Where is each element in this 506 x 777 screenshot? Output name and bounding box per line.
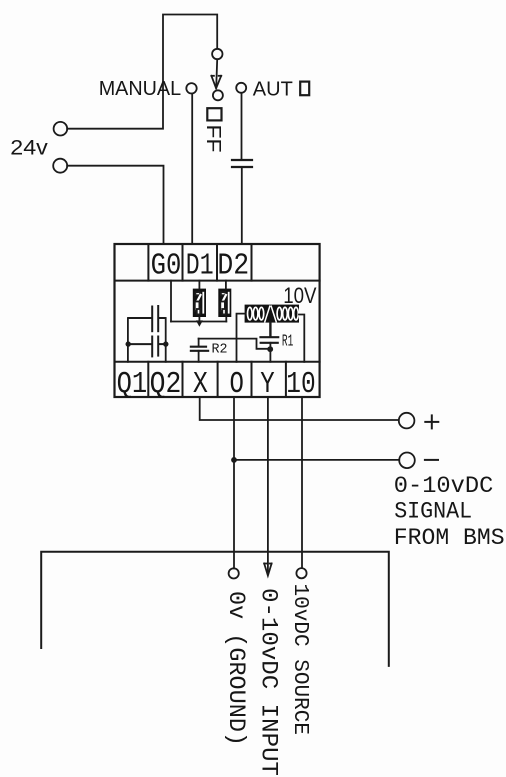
potentiometer RP1 xyxy=(245,305,299,323)
device terminal 10vDC source xyxy=(296,568,306,578)
label OFF (rotated, square O) xyxy=(207,108,221,120)
wire: potentiometer wiper to R1 xyxy=(269,323,271,337)
svg-text:SIGNAL: SIGNAL xyxy=(394,499,472,525)
junction dot Q1 branch xyxy=(126,341,131,346)
wire: capacitor C1 to terminal D2 xyxy=(241,168,243,244)
svg-text:10vDC SOURCE: 10vDC SOURCE xyxy=(288,584,311,736)
capacitor R2 xyxy=(191,339,208,362)
controller top terminal row xyxy=(115,244,320,281)
wire: Q1 terminal to contacts xyxy=(127,318,129,362)
junction dot on Y wire xyxy=(267,346,273,352)
switch SW1 common pole xyxy=(212,49,222,59)
svg-text:0v (GROUND): 0v (GROUND) xyxy=(223,591,249,746)
switch SW1 MANUAL position contact xyxy=(186,83,196,93)
junction dot Q2 branch xyxy=(163,341,168,346)
svg-text:0-10vDC: 0-10vDC xyxy=(394,473,494,499)
svg-text:MANUAL: MANUAL xyxy=(99,78,181,100)
wire: terminal Y to input arrow xyxy=(267,397,269,572)
wire: MANUAL contact to terminal D1 xyxy=(191,94,193,244)
optocoupler U2 (D1 input) xyxy=(193,289,206,317)
optocoupler U3 (D2 input) xyxy=(218,289,231,317)
label 0-10vDC SIGNAL FROM BMS xyxy=(394,473,505,551)
output terminal + xyxy=(399,413,415,429)
svg-text:R1: R1 xyxy=(282,333,293,352)
svg-text:24v: 24v xyxy=(10,136,48,159)
wire: potentiometer right end to terminal 10 xyxy=(299,315,304,362)
svg-text:0-10vDC INPUT: 0-10vDC INPUT xyxy=(256,588,282,776)
wire: G0 internal to common bus xyxy=(170,281,172,322)
relay contact K1b (lower, Q1-Q2) xyxy=(128,336,166,358)
svg-text:FROM BMS: FROM BMS xyxy=(394,525,505,551)
wire: Q2 terminal to contacts xyxy=(165,318,167,362)
controller bottom terminal row xyxy=(115,362,320,397)
svg-text:Q1: Q1 xyxy=(117,367,148,402)
svg-text:D2: D2 xyxy=(217,248,249,283)
junction dot on O wire xyxy=(231,457,237,463)
wire: common bus under optocouplers xyxy=(171,321,226,323)
output terminal - xyxy=(399,453,415,469)
wire: R2 top to Y junction xyxy=(199,339,268,349)
capacitor C1 xyxy=(232,160,252,167)
svg-text:AUT: AUT xyxy=(253,78,293,100)
wire: D1 terminal to optocoupler U2 xyxy=(198,281,200,289)
svg-text:O: O xyxy=(230,367,244,402)
device terminal 0v xyxy=(229,568,239,578)
svg-text:10V: 10V xyxy=(283,283,317,308)
svg-text:Q2: Q2 xyxy=(150,367,182,402)
controller U1 outer box xyxy=(115,244,320,397)
arrow into 0-10vDC input xyxy=(264,564,271,576)
wire: optocoupler U3 to bus xyxy=(225,317,227,322)
wire: terminal 10 down to source terminal xyxy=(301,397,303,568)
controlled device box xyxy=(41,552,389,666)
switch SW1 AUTO position contact xyxy=(236,83,246,93)
relay contact K1a (upper, Q1-Q2) xyxy=(128,305,166,332)
24v terminal T2 (bottom) xyxy=(53,159,67,173)
label + xyxy=(425,415,438,428)
wire: optocoupler U2 to bus xyxy=(198,317,200,322)
svg-text:FF: FF xyxy=(202,125,224,153)
wire: 24v T2 to terminal G0 xyxy=(67,166,163,244)
wire: potentiometer left end to terminal O xyxy=(237,314,245,362)
capacitor R1 xyxy=(261,337,279,343)
svg-text:R2: R2 xyxy=(212,342,228,358)
wire: AUTO contact to capacitor C1 xyxy=(241,93,243,159)
24v terminal T1 (top) xyxy=(54,122,68,136)
wire: D2 terminal to optocoupler U3 xyxy=(225,281,227,289)
switch SW1 OFF position contact xyxy=(213,90,223,100)
wire: R1 to terminal Y xyxy=(269,343,271,362)
junction arrow on bus xyxy=(196,320,203,326)
svg-text:10: 10 xyxy=(286,367,315,402)
label - xyxy=(425,459,438,461)
wire: terminal O down to ground terminal xyxy=(233,397,235,568)
switch SW1 selector arrow xyxy=(211,60,221,89)
wire: junction to - output xyxy=(234,459,399,461)
svg-text:G0: G0 xyxy=(151,248,182,283)
wire: terminal X to + output xyxy=(200,397,399,420)
wire: 24v T1 to switch common xyxy=(67,15,217,129)
svg-text:D1: D1 xyxy=(186,248,214,283)
